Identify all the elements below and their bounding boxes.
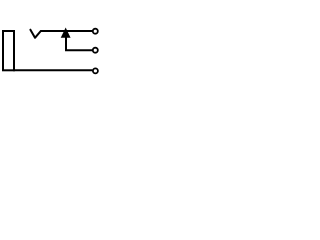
terminal pin 2 (switch) — [93, 48, 98, 53]
terminal pin 3 (sleeve) — [93, 68, 98, 73]
switch arrow head — [61, 28, 70, 37]
switch stem wire — [65, 37, 67, 50]
wire switch rail (middle) — [65, 49, 92, 51]
terminal pin 1 (tip) — [93, 29, 98, 34]
jack connector body J1 — [3, 31, 14, 70]
wire tip rail (top) — [40, 30, 92, 32]
wire sleeve rail (bottom) — [13, 69, 92, 71]
tip contact (check-mark notch) — [30, 30, 40, 38]
